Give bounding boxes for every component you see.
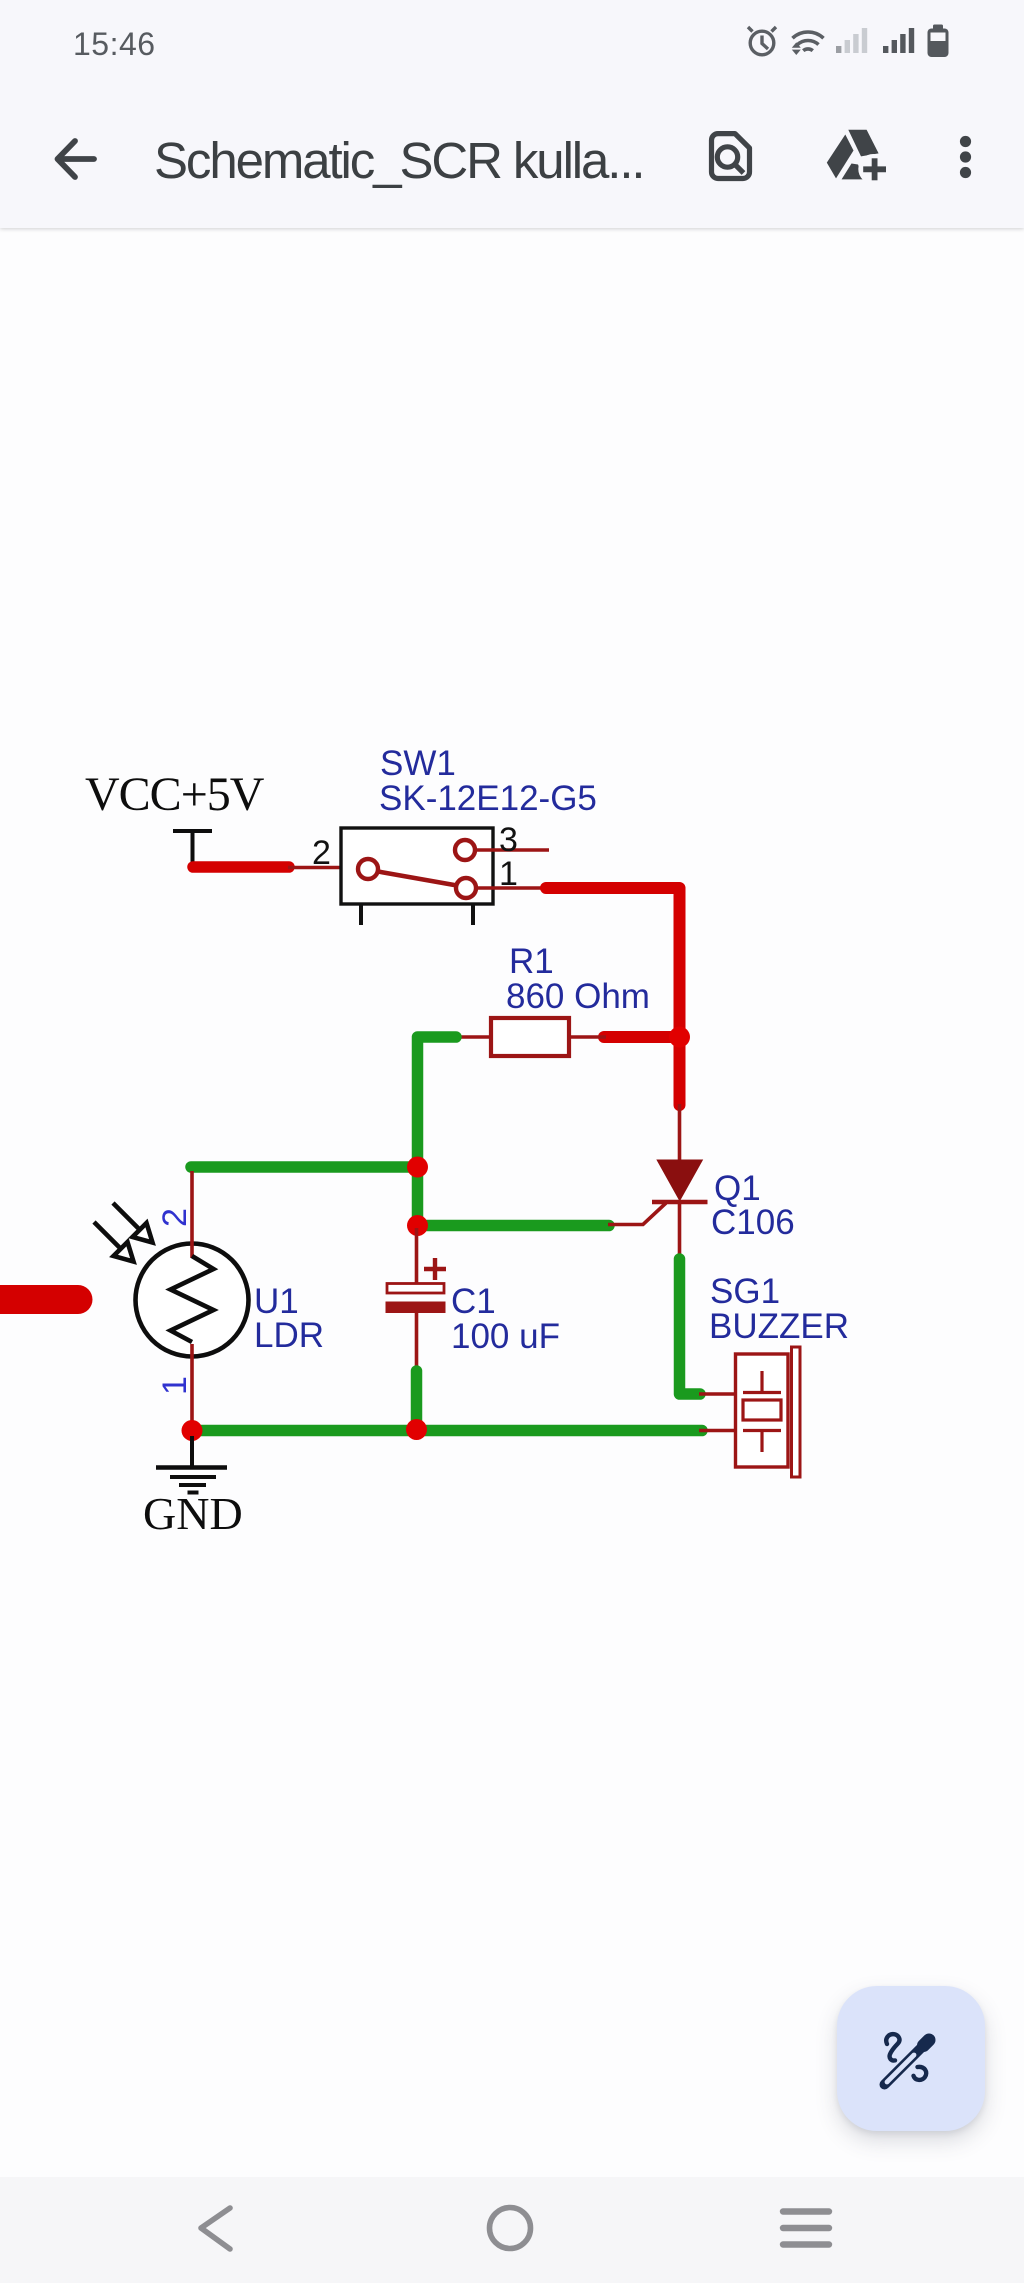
svg-text:SW1: SW1 [380,744,456,783]
junction red net at R1 [669,1027,690,1048]
power symbol VCC+5V [173,831,212,866]
switch SW1 body [341,828,493,904]
svg-text:BUZZER: BUZZER [709,1307,849,1346]
buzzer pin - lead [699,1429,736,1433]
svg-text:LDR: LDR [254,1316,324,1355]
switch contact pin 3 [455,840,475,860]
status icon: wifi with traffic arrows [793,32,824,51]
U1 pin 1 lead (bottom) [190,1344,194,1430]
ground symbol GND [156,1436,227,1493]
annotate FAB [837,1986,985,2131]
status icon: signal bars sim1 [836,28,867,53]
wire C1 bottom green stub [411,1371,423,1429]
switch contact pin 1 [456,878,476,898]
SCR Q1 cathode bar [652,1200,708,1204]
photoresistor U1 body circle [136,1244,249,1357]
switch contact pin 2 [358,859,378,879]
status bar clock [73,26,156,63]
buzzer SG1 body [736,1354,789,1467]
fab pen squiggle [886,2034,899,2060]
app bar title [154,131,644,190]
buzzer pin + lead [699,1392,736,1396]
app bar: overflow menu dots [960,136,971,178]
pin 3 lead [476,848,549,852]
resistor R1 right lead [569,1035,606,1039]
svg-text:C106: C106 [711,1203,795,1242]
fab pen nib [924,2040,930,2046]
nav back chevron [201,2208,230,2249]
light arrow lower [94,1222,134,1262]
buzzer piezo element top electrode [743,1371,781,1393]
status icon: battery [928,25,949,58]
fab pen icon [870,2020,940,2090]
capacitor C1 top plate [387,1284,444,1294]
wire SCR cathode to buzzer (green corner) [680,1259,701,1394]
fab bottom curl [914,2067,927,2080]
capacitor C1 plus sign [424,1258,446,1280]
SCR Q1 gate lead [608,1203,666,1225]
fab pen slot [887,2055,914,2082]
resistor R1 left lead [455,1035,491,1039]
wire stub off-page left (fat red) [0,1285,78,1314]
nav home circle [490,2208,531,2249]
wire R1 right to red net (thick red) [604,1031,683,1043]
svg-text:VCC+5V: VCC+5V [85,768,265,821]
app bar: back arrow [58,141,95,177]
pin 1 lead [477,886,546,890]
svg-text:1: 1 [499,855,518,893]
wire LDR top to green net (horizontal) [191,1161,417,1173]
svg-text:3: 3 [499,821,518,859]
nav recents lines [783,2212,829,2245]
capacitor C1 bottom lead [415,1313,419,1373]
buzzer SG1 sound plate [792,1347,801,1477]
svg-text:2: 2 [312,834,331,872]
U1 pin 2 lead (top) [190,1171,194,1258]
junction green net top [407,1157,428,1178]
resistor R1 body [491,1018,569,1056]
junction ground at C1 [406,1419,427,1440]
light arrow upper [113,1203,153,1243]
wire switch pin1 to SCR anode (thick red, corner) [546,888,680,1105]
nav icons [0,2177,1024,2283]
wire R1 left green vertical to gate node [418,1037,457,1225]
svg-text:C1: C1 [451,1282,496,1321]
buzzer piezo element bottom electrode [743,1431,781,1453]
wire ground bus (green bottom) [192,1425,702,1437]
switch lever pin2-pin1 [378,872,457,886]
capacitor C1 bottom plate [386,1302,446,1314]
header icons svg [0,0,1024,228]
switch SW1 mounting legs [361,904,473,925]
buzzer piezo crystal [743,1400,781,1420]
SCR Q1 cathode lead [678,1202,682,1258]
capacitor C1 top lead [415,1228,419,1284]
svg-text:R1: R1 [509,942,554,981]
app bar: add-to-drive icon [827,130,879,180]
svg-text:1: 1 [156,1376,194,1395]
U1 resistive zigzag [171,1256,214,1342]
svg-text:100 uF: 100 uF [451,1317,560,1356]
junction gate node [407,1215,428,1236]
junction ground at LDR [182,1420,203,1441]
status icon: signal bars sim2 [883,28,914,53]
svg-text:SK-12E12-G5: SK-12E12-G5 [379,779,597,818]
wire stub pin 2 lead [288,866,357,870]
app bar: find-in-document icon [712,134,750,179]
svg-text:2: 2 [156,1208,194,1227]
fab pen body [885,2039,931,2085]
SCR Q1 triangle [658,1161,702,1200]
status icon: alarm clock [748,27,776,55]
svg-text:SG1: SG1 [710,1272,780,1311]
svg-text:GND: GND [143,1488,243,1539]
svg-text:860 Ohm: 860 Ohm [506,977,650,1016]
android navigation bar [0,2177,1024,2283]
app header bar [0,0,1024,228]
SCR Q1 anode lead [678,1104,682,1161]
wire VCC to switch pin 2 (thick red) [193,861,289,873]
wire gate node to SCR gate (green) [418,1220,610,1232]
